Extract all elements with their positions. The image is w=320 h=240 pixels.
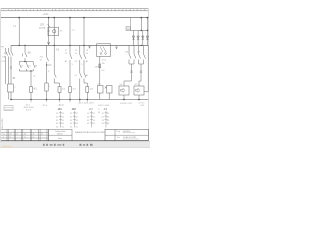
revision table text	[3, 133, 43, 138]
wire drop x147	[146, 18, 148, 31]
svg-text:QCA1.02.DIST: QCA1.02.DIST	[123, 136, 137, 139]
svg-text:-K1: -K1	[33, 88, 37, 91]
label cluster left of K2a	[40, 57, 44, 62]
coil K2	[58, 87, 61, 93]
cross-ref table K3	[87, 107, 96, 128]
svg-text:15: 15	[107, 9, 109, 11]
node bus-141	[141, 17, 143, 19]
relay box D1	[119, 86, 129, 95]
coil K1	[30, 87, 33, 93]
svg-text:-K2: -K2	[56, 49, 60, 52]
svg-text:12: 12	[85, 9, 87, 11]
wire drop x19	[18, 18, 20, 46]
svg-text:3~N: 3~N	[1, 61, 5, 63]
label col x76	[75, 50, 84, 77]
node link46	[46, 64, 47, 65]
svg-text:14: 14	[99, 9, 101, 11]
svg-text:18: 18	[129, 9, 131, 11]
svg-text:3x2.5: 3x2.5	[26, 110, 32, 112]
svg-text:xx: xx	[3, 136, 5, 138]
wire T1 down	[99, 56, 101, 85]
svg-text:ai PLC: ai PLC	[139, 102, 146, 104]
node bus-147	[147, 17, 149, 19]
svg-text:7: 7	[48, 9, 49, 11]
potential arrow x116	[116, 45, 118, 49]
svg-text:-X1:4: -X1:4	[42, 105, 48, 107]
svg-text:10: 10	[70, 9, 72, 11]
label col x66	[65, 50, 74, 66]
varistor branch V4	[146, 31, 148, 46]
svg-text:24VDC OUT: 24VDC OUT	[120, 103, 133, 105]
svg-text:0a: 0a	[3, 133, 5, 135]
title right labels	[117, 131, 122, 139]
node N-79	[79, 99, 81, 101]
svg-text:N L1: N L1	[102, 60, 107, 62]
svg-text:Arch.QCA1: Arch.QCA1	[1, 117, 4, 128]
meter X marks	[48, 30, 50, 32]
svg-text:16A: 16A	[2, 56, 6, 59]
node N-139	[138, 99, 140, 101]
svg-text:1: 1	[3, 9, 4, 11]
node coll-31	[30, 70, 31, 71]
svg-text:4e: 4e	[33, 133, 35, 135]
breaker Q1 pole 2	[8, 48, 10, 84]
svg-text:3d: 3d	[24, 133, 26, 135]
branch P2 x53 lower	[54, 45, 56, 83]
node bus-84	[83, 17, 85, 19]
node rail-25	[24, 45, 25, 46]
node N-70	[69, 99, 71, 101]
title right box	[105, 129, 148, 140]
frame left edge	[0, 9, 2, 141]
wire link y61.5	[19, 61, 33, 63]
svg-text:2c: 2c	[17, 133, 19, 135]
svg-text:9: 9	[62, 9, 63, 11]
svg-text:-K4: -K4	[103, 107, 108, 111]
branch K5 x79.8	[80, 45, 82, 99]
fuse F3	[99, 64, 101, 68]
svg-text:400mA: 400mA	[39, 26, 46, 29]
svg-text:-K3: -K3	[89, 107, 94, 111]
toolbar bottom border	[0, 147, 150, 149]
wire N rail	[11, 99, 148, 101]
wire control rail L	[11, 44, 148, 46]
wire x31 down	[30, 71, 32, 87]
node N-46	[46, 99, 48, 101]
svg-text:13: 13	[92, 9, 94, 11]
svg-text:1F1: 1F1	[40, 24, 45, 26]
branch K2 x46 lower	[47, 45, 49, 99]
label F1 block	[39, 24, 46, 29]
svg-text:xx: xx	[33, 136, 35, 138]
wire drop x84	[83, 18, 85, 46]
svg-text:xx: xx	[24, 136, 26, 138]
branch K4 x70	[70, 45, 72, 99]
wire L1 bus	[1, 17, 149, 19]
breaker Q1 branch x11	[9, 45, 14, 99]
coil K4	[69, 87, 72, 93]
frame column ticks	[8, 9, 141, 11]
wire drop x141	[140, 18, 142, 31]
node rail-70	[69, 45, 70, 46]
svg-text:-X1:6: -X1:6	[58, 105, 64, 107]
right contacts branch B	[139, 45, 146, 86]
node bus-70	[69, 17, 71, 19]
svg-text:3: 3	[18, 9, 19, 11]
wire DC rail top	[131, 30, 149, 32]
right contacts branch A	[124, 45, 136, 86]
node rail-19	[19, 45, 20, 46]
relay box D2	[134, 86, 144, 95]
svg-text:19: 19	[136, 9, 138, 11]
wire jog to K2	[54, 83, 59, 87]
title right divider	[114, 129, 116, 140]
svg-text:M: M	[98, 112, 100, 114]
label D1	[119, 84, 138, 86]
overload F2	[8, 84, 14, 92]
branch K6 x84	[84, 45, 86, 83]
timer KT1	[45, 83, 48, 91]
svg-text:2: 2	[11, 9, 12, 11]
cross-ref table K2	[70, 107, 79, 129]
svg-text:-S0: -S0	[27, 52, 31, 55]
frame right edge	[147, 9, 149, 141]
svg-text:-Q1: -Q1	[4, 52, 9, 55]
node bus-53	[53, 17, 55, 19]
wire out y92	[144, 91, 148, 93]
svg-text:Pag.: Pag.	[117, 131, 122, 133]
node rail-84	[83, 45, 84, 46]
breaker Q1 pole 3	[6, 48, 8, 84]
svg-text:-K2: -K2	[72, 107, 77, 111]
revision table verticals	[7, 129, 48, 140]
frame column numbers	[3, 9, 145, 11]
toolbar icons right group	[80, 144, 93, 146]
coil K6	[86, 87, 89, 93]
node bus-19	[18, 17, 20, 19]
wire G1 to rail	[99, 93, 101, 100]
arrow to rail x48.6	[48, 42, 50, 45]
node N-87	[87, 99, 89, 101]
wire jog to K6	[84, 83, 87, 87]
node N-59	[59, 99, 61, 101]
svg-text:Ufficio: Ufficio	[57, 134, 63, 136]
toolbar accent	[2, 146, 12, 148]
title info cell	[48, 129, 72, 140]
svg-text:1b: 1b	[10, 133, 12, 135]
svg-text:Cablato das: Cablato das	[55, 130, 66, 133]
wire link y65 right	[47, 64, 52, 66]
wire drop x48.6	[48, 18, 50, 44]
varistor branch V2	[137, 31, 139, 46]
node N-31	[30, 99, 32, 101]
varistor branch V1	[132, 31, 134, 46]
svg-text:RAHMONICAS 40/40.5/CONE: RAHMONICAS 40/40.5/CONE	[75, 131, 105, 134]
node rail-141	[141, 45, 142, 46]
label under rail 1	[24, 105, 34, 112]
wire right edge drop	[147, 45, 149, 91]
title right value 2	[123, 136, 140, 139]
node dc-141	[141, 30, 142, 31]
svg-text:4: 4	[26, 9, 27, 11]
svg-text:-K1: -K1	[58, 107, 63, 111]
toolbar icons left group	[43, 144, 64, 146]
contact S1b	[27, 62, 29, 72]
svg-text:11: 11	[77, 9, 79, 11]
fuse F1 slash	[48, 24, 50, 27]
title info text	[55, 130, 66, 140]
svg-text:xx: xx	[10, 136, 12, 138]
node N-11	[10, 99, 12, 101]
node rail-53	[54, 45, 55, 46]
contact S1a	[19, 62, 21, 72]
svg-text:17: 17	[122, 9, 124, 11]
wire drop x70	[69, 18, 71, 46]
varistor branch V3	[142, 31, 144, 46]
svg-text:16: 16	[114, 9, 116, 11]
meter circle	[53, 30, 56, 33]
svg-text:20: 20	[144, 9, 146, 11]
wire K1 to rail	[30, 92, 32, 99]
label right contacts	[125, 52, 141, 54]
svg-text:5: 5	[33, 9, 34, 11]
title block revision table	[1, 129, 49, 138]
title right value 1	[123, 131, 136, 133]
svg-text:8: 8	[55, 9, 56, 11]
wire D boxes to rail	[124, 95, 139, 100]
svg-text:+24V: +24V	[140, 105, 145, 107]
frame top band	[1, 9, 149, 11]
terminal X1 marks	[10, 67, 15, 80]
node dc-147	[147, 30, 148, 31]
device G1	[98, 86, 107, 94]
switch symbol inside T1	[100, 47, 106, 55]
svg-text:Tav.: Tav.	[117, 137, 121, 139]
node N-124	[123, 99, 125, 101]
title right mid	[105, 134, 148, 136]
label right out2	[139, 102, 146, 107]
main switch box T1	[97, 44, 111, 57]
potential arrow x89	[89, 45, 91, 48]
contact S1c	[33, 62, 35, 72]
pushbutton S0 x25	[23, 45, 27, 61]
wire drop x130	[130, 18, 132, 31]
frame bottom line	[1, 140, 149, 142]
label under rail right	[98, 105, 110, 114]
wire K6 to rail	[86, 92, 88, 99]
svg-text:6: 6	[40, 9, 41, 11]
terminal stubs below rail	[31, 100, 87, 103]
node link-25	[24, 61, 25, 62]
label col x86	[86, 50, 89, 77]
svg-text:+CA1: +CA1	[43, 13, 50, 16]
cross-ref table K1	[56, 107, 65, 129]
cross-ref table K4	[102, 107, 111, 128]
wire K2 to rail	[59, 92, 61, 99]
meter box P1	[48, 27, 59, 35]
capacitor marks right	[130, 71, 142, 72]
toolbar top border	[0, 141, 150, 143]
wire collector y71	[19, 70, 33, 72]
viewer toolbar	[0, 141, 150, 147]
wire drop x54.2	[53, 18, 55, 46]
svg-text:0VDC GND: 0VDC GND	[98, 105, 110, 107]
label box K10	[126, 27, 130, 31]
svg-text:-X2:1 -X2:2 -X2:3: -X2:1 -X2:2 -X2:3	[78, 103, 94, 105]
node bus-46	[48, 17, 50, 19]
terminal label box X1	[4, 106, 13, 111]
device G2	[107, 86, 113, 100]
label T1 rows	[95, 60, 108, 73]
